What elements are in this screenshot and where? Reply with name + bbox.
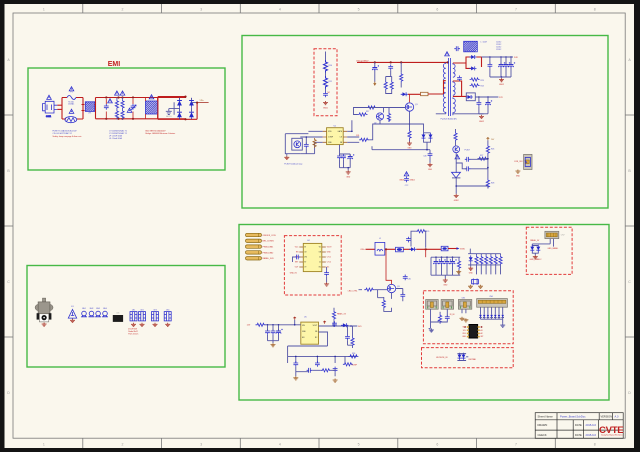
svg-text:LF1: LF1 (88, 113, 91, 115)
ferrite bead FB2 (441, 246, 448, 251)
ground rc left (293, 376, 298, 380)
ground C11 arrow (373, 82, 376, 86)
transformer T1 core (449, 58, 451, 116)
ground CP1 (131, 323, 136, 327)
wire snubber (408, 93, 444, 95)
wire U5 out (319, 308, 358, 326)
svg-text:2015-9-6: 2015-9-6 (586, 433, 597, 437)
svg-text:Power_Board.SchDoc: Power_Board.SchDoc (560, 414, 586, 418)
capacitor C40 (345, 335, 350, 341)
ground Y1 left (468, 285, 473, 289)
resistor R19 (387, 112, 390, 122)
EMI section box (28, 68, 225, 170)
ground out2 (479, 115, 484, 119)
ground rc right (333, 379, 338, 383)
capacitor C26 (465, 166, 471, 171)
capacitor C43 (333, 367, 338, 373)
wire CN7 down (532, 239, 553, 247)
U6 pin left 3 (467, 333, 469, 335)
earth symbol TRI1 (68, 309, 76, 318)
svg-text:VOUT: VOUT (327, 247, 332, 249)
warning triangle R2 (120, 91, 125, 95)
svg-text:SET: SET (295, 262, 298, 264)
svg-text:6: 6 (436, 443, 438, 447)
ground out1 (499, 78, 504, 82)
svg-text:MH1: MH1 (82, 308, 86, 310)
svg-text:PC817 feedback loop: PC817 feedback loop (284, 164, 302, 166)
wire secondary out1 (453, 57, 513, 68)
svg-text:LED_CTRL: LED_CTRL (348, 291, 358, 293)
ESD diode DA7 (501, 315, 504, 318)
svg-text:MH4: MH4 (103, 308, 107, 310)
svg-text:8: 8 (594, 8, 596, 12)
resistor RL3 (485, 255, 488, 265)
U4 right pin 5 (322, 266, 326, 268)
svg-text:GND: GND (428, 169, 433, 171)
wire CN3 down (429, 309, 439, 328)
label plate black (113, 315, 123, 322)
svg-text:DATE: DATE (575, 433, 582, 437)
tan ground r30 (456, 270, 461, 274)
svg-text:GND_5V: GND_5V (290, 272, 298, 274)
capacitor bank rail bottom (431, 257, 460, 278)
frame zone tick (82, 4, 84, 13)
resistor RL2 (480, 255, 483, 265)
svg-text:GND1: GND1 (323, 108, 328, 110)
svg-text:C2: C2 (319, 262, 321, 264)
capacitor C10 (323, 92, 328, 98)
svg-text:PC817: PC817 (465, 150, 471, 152)
TL431 U3 (452, 172, 461, 178)
resistor R15 startup (400, 73, 403, 83)
IC U6 black (469, 325, 478, 339)
svg-text:CVTE: CVTE (599, 425, 624, 436)
led row rail top (468, 253, 501, 255)
capacitor C14 (337, 154, 342, 160)
common-mode choke LF1 (85, 102, 94, 112)
svg-text:VOUT: VOUT (313, 325, 318, 327)
diode D2 (177, 110, 182, 119)
U6 pin right 1 (478, 326, 480, 328)
svg-text:GND2: GND2 (410, 180, 415, 182)
capacitor C15 (341, 154, 346, 160)
fuse F1 loop (62, 98, 83, 120)
diode D3 (189, 98, 194, 107)
wire AC N (57, 108, 62, 110)
control dashed box (284, 236, 341, 295)
svg-text:CTL1: CTL1 (327, 257, 331, 259)
capacitor C24 elco (486, 100, 493, 106)
svg-text:C1: C1 (319, 257, 321, 259)
U6 pin right 3 (478, 333, 480, 335)
resistor R26 (486, 145, 489, 155)
svg-text:R10: R10 (329, 65, 332, 67)
IC U5 regulator (301, 322, 319, 344)
resistor R32 q3 (382, 299, 385, 309)
led row rail bottom (468, 263, 501, 267)
transformer T1 primary (443, 62, 445, 114)
wire EMI top bus (82, 98, 187, 119)
ESD diode DA3 (487, 315, 490, 318)
wire U5 in (266, 323, 301, 326)
resistor R16 snubber (421, 92, 429, 95)
svg-text:Q3: Q3 (397, 286, 400, 288)
frame zone tick (239, 4, 241, 13)
TVS diode D16 (536, 245, 540, 252)
svg-text:MH3: MH3 (96, 308, 100, 310)
resistor R36 fb h (348, 355, 358, 358)
resistor R37 rc (321, 369, 331, 372)
ground cap bank (346, 170, 351, 174)
capacitor C38 elco (276, 329, 283, 335)
connector CN3 (426, 300, 439, 310)
resistor R1A (115, 99, 118, 109)
svg-text:EMI: EMI (108, 61, 121, 68)
connector pin P4 (246, 251, 262, 254)
wire CN4 down (438, 309, 447, 322)
svg-text:8: 8 (594, 443, 596, 447)
capacitor C22 (457, 76, 462, 82)
resistor R23 (470, 78, 480, 81)
svg-text:GND1: GND1 (399, 180, 404, 182)
optocoupler U2 output side (453, 146, 460, 153)
svg-text:KEYPAD: KEYPAD (469, 358, 477, 361)
svg-text:CON_24V: CON_24V (514, 161, 523, 163)
crystal Y1 (472, 280, 479, 284)
svg-text:ST: ST (304, 262, 306, 264)
wire fb divider (478, 140, 488, 188)
wire U1 right nets (347, 120, 359, 142)
svg-text:DRAWN: DRAWN (538, 423, 548, 427)
connector CN2 standalone (524, 154, 532, 169)
svg-text:R29: R29 (426, 231, 429, 233)
svg-text:Safety: keep creepage 6.4mm mi: Safety: keep creepage 6.4mm min (53, 135, 82, 138)
frame zone tick (554, 4, 556, 13)
wire diode row bottom (481, 319, 503, 323)
wire out2 gnd (479, 97, 488, 114)
IC U1 PWM controller (327, 128, 344, 145)
wire bridge columns (174, 98, 197, 119)
warning triangle CY2 (404, 172, 409, 176)
svg-text:CE3: CE3 (153, 309, 156, 311)
wire T1 bottom (436, 113, 484, 115)
ground opto (284, 156, 289, 160)
wire gate (359, 290, 392, 299)
svg-text:GND2: GND2 (454, 200, 459, 202)
svg-text:24V: 24V (514, 57, 518, 59)
U4 left pin 1 (299, 246, 303, 248)
capacitor C46 comp (428, 152, 433, 158)
svg-text:2015-9-6: 2015-9-6 (586, 423, 597, 427)
svg-text:CE1: CE1 (132, 309, 135, 311)
cap pad CP2 (139, 312, 146, 321)
ground cn5 a (460, 317, 465, 321)
ground cn5 b (463, 318, 468, 322)
capacitor CX1 (104, 104, 109, 110)
resistor R31 gate (364, 288, 374, 291)
cap pad CP1 (130, 312, 137, 321)
ferrite bead FB1 (396, 247, 404, 252)
svg-text:2: 2 (122, 8, 124, 12)
common-mode choke LF3 (464, 41, 478, 52)
ground CN2 (515, 170, 520, 174)
svg-text:PANEL_5V: PANEL_5V (337, 313, 347, 316)
connector pin P2 (246, 239, 262, 242)
svg-text:R26: R26 (491, 149, 494, 151)
connector pin P1 (246, 233, 262, 236)
ground Y1 right (478, 285, 483, 289)
svg-text:R24: R24 (481, 86, 484, 88)
ground led row (468, 267, 473, 271)
connector J1 AC inlet (43, 101, 58, 118)
frame zone tick (161, 4, 163, 13)
wire T1 snubber tap (444, 81, 446, 94)
U6 pin right 2 (478, 329, 480, 331)
svg-text:GND2: GND2 (479, 121, 484, 123)
transformer T1 secondary (453, 63, 455, 81)
svg-text:12V: 12V (499, 97, 503, 99)
ground earth (70, 319, 75, 323)
capacitor C32 elco (445, 259, 452, 265)
svg-text:CE: CE (304, 252, 306, 254)
svg-text:R23: R23 (481, 80, 484, 82)
svg-text:BRI_CON5V: BRI_CON5V (263, 241, 275, 243)
connector pin P3 (246, 245, 262, 248)
resistor RL4 (489, 255, 492, 265)
wire U5 in caps (268, 325, 279, 343)
svg-text:ON/OFF_CON: ON/OFF_CON (263, 235, 277, 237)
svg-text:CE2: CE2 (140, 309, 143, 311)
frame zone tick (476, 4, 478, 13)
wire Q3 drain (386, 249, 392, 284)
wire bridge loop (158, 97, 197, 120)
svg-text:SCL: SCL (463, 330, 466, 332)
U6 pin left 4 (467, 336, 469, 338)
svg-text:GND: GND (469, 272, 474, 274)
keypad dashed box (422, 348, 514, 368)
resistor R33 in (256, 323, 266, 326)
svg-text:C2012: C2012 (496, 49, 501, 51)
capacitor C27 u4 (295, 255, 301, 260)
ESD diode DA4 (490, 315, 493, 318)
warning triangle F1 (69, 87, 74, 91)
ESD diode DA6 (498, 315, 501, 318)
connector CN6 wide (477, 299, 508, 308)
resistor R1B (115, 109, 118, 119)
interface dashed box (423, 291, 513, 344)
wire U1 left nets (300, 131, 322, 153)
resistor R18 (358, 113, 368, 116)
wire CN6 pins down (481, 307, 503, 315)
resistor R27 h (478, 157, 488, 160)
svg-text:GND: GND (346, 177, 351, 179)
svg-text:CHECK: CHECK (538, 433, 547, 437)
svg-text:5: 5 (358, 8, 360, 12)
diode D11 (409, 247, 416, 251)
svg-text:Sheet Name: Sheet Name (538, 414, 554, 418)
resistor R35 (351, 337, 354, 347)
capacitor C44 rc (307, 368, 313, 373)
ESD diode DA1 (479, 315, 482, 318)
resistor R38 (343, 363, 353, 366)
resistor R2B (121, 109, 124, 119)
svg-text:L1: L1 (379, 238, 381, 240)
svg-text:R11: R11 (329, 81, 332, 83)
U6 pin left 1 (467, 326, 469, 328)
capacitor C29 d11 (406, 237, 411, 243)
mechanical parts section box (27, 266, 225, 368)
svg-text:VLED: VLED (460, 249, 466, 251)
panel dashed box (526, 227, 572, 274)
ground fb (454, 194, 459, 198)
U4 right pin 2 (322, 251, 326, 253)
warning triangle R1 (115, 91, 120, 95)
resistor RL5 (494, 255, 497, 265)
resistor RL1 (475, 255, 478, 265)
capacitor C45 if (445, 315, 450, 321)
U4 left pin 3 (299, 256, 303, 258)
screw hole MH2 (89, 311, 95, 317)
svg-text:R36: R36 (352, 353, 355, 355)
capacitor C16 big (348, 154, 355, 160)
capacitor C11 bulk (372, 65, 379, 71)
U4 left pin 5 (299, 266, 303, 268)
resistor R21 (359, 138, 369, 141)
capacitor C21 elco (509, 62, 516, 68)
frame zone tick side (5, 114, 14, 116)
svg-text:CS1: CS1 (356, 135, 360, 137)
fuse F1 (67, 96, 76, 100)
svg-text:GND2: GND2 (499, 84, 504, 86)
resistor R25 fb (454, 132, 457, 142)
resistor R30 bank (457, 260, 460, 270)
wire gate drive (354, 108, 406, 125)
screw hole MH4 (102, 311, 108, 317)
svg-text:7: 7 (515, 8, 517, 12)
svg-text:COMP: COMP (328, 137, 334, 139)
svg-text:LF: 20mH 0.8A: LF: 20mH 0.8A (109, 137, 122, 140)
svg-text:1: 1 (43, 8, 45, 12)
capacitor C25 (465, 157, 471, 162)
wire R29 loop (411, 231, 426, 248)
capacitor C34 q3 (400, 293, 405, 299)
capacitor C17 (454, 46, 460, 51)
ground CP4 (165, 323, 170, 327)
svg-text:C35: C35 (408, 279, 411, 281)
warning triangle CX1 (108, 99, 113, 103)
ESD diode DA2 (483, 315, 486, 318)
svg-text:OB+: OB+ (360, 249, 365, 251)
svg-text:GND_PANEL2: GND_PANEL2 (530, 258, 542, 261)
wire led row feed (469, 249, 471, 254)
capacitor C30 elco (434, 259, 441, 265)
svg-text:DATE: DATE (575, 423, 582, 427)
U4 right pin 3 (322, 256, 326, 258)
resistor R10 (324, 60, 328, 73)
secondary control section box (239, 225, 609, 401)
cap pad CP3 (152, 312, 159, 321)
ground CN6 (500, 324, 505, 328)
MOSFET Q1 (405, 103, 413, 111)
svg-text:OT: OT (304, 267, 306, 269)
diode D12 led (469, 255, 473, 262)
svg-text:C46: C46 (423, 155, 426, 157)
svg-text:3: 3 (200, 443, 202, 447)
screw hole MH1 (81, 311, 87, 317)
wire out1 gnd rail (490, 57, 511, 77)
ground cap bank (443, 279, 448, 283)
power arrow fb (487, 138, 490, 141)
transistor Q2 driver (376, 113, 383, 120)
wire secondary out2 (453, 81, 467, 96)
svg-text:Voltage380V: Voltage380V (356, 59, 369, 62)
ground CP2 (140, 323, 145, 327)
wire tvs (532, 246, 538, 256)
connector CN4 (441, 300, 454, 310)
ground tvs (533, 255, 538, 259)
diode D14 dual keypad (458, 353, 462, 360)
resistor RL6 (499, 255, 502, 265)
svg-text:CX:0.47uF/275VAC X2: CX:0.47uF/275VAC X2 (53, 132, 72, 135)
svg-text:250VAC: 250VAC (68, 103, 75, 106)
frame zone tick side (5, 225, 14, 227)
ground if navy (429, 328, 434, 332)
svg-text:6: 6 (436, 8, 438, 12)
svg-text:A1: A1 (481, 329, 483, 332)
inductor L1 (375, 242, 385, 255)
warning triangle RV1 (69, 109, 74, 113)
zener D7 (429, 133, 433, 140)
wire CS (410, 124, 424, 133)
capacitor CY1 (131, 104, 136, 110)
warning triangle CY1 (127, 108, 132, 112)
resistor R14 (390, 81, 393, 91)
capacitor C12 (388, 65, 393, 71)
svg-text:GND_PANEL: GND_PANEL (548, 247, 559, 250)
svg-text:7: 7 (515, 443, 517, 447)
wire tl431 (456, 159, 488, 194)
title block table (535, 413, 623, 439)
diode D5 clamp (401, 92, 408, 96)
wire rectified output (197, 102, 209, 104)
power flag U5 (293, 317, 296, 320)
frame zone tick (318, 4, 320, 13)
svg-text:PWM_DIM1: PWM_DIM1 (263, 247, 275, 249)
cap pad CP4 (164, 312, 171, 321)
ground CP3 (153, 323, 158, 327)
svg-text:PWM_DIM2: PWM_DIM2 (263, 252, 275, 254)
svg-text:CON1: CON1 (46, 116, 51, 118)
capacitor C19 elco (499, 62, 506, 68)
capacitor C31 elco (439, 259, 446, 265)
svg-text:CY2: CY2 (405, 185, 409, 187)
primary power section box (242, 36, 608, 209)
ground AC inlet (42, 323, 47, 327)
voltage sense dashed box (314, 49, 337, 116)
ground U5 caps (271, 343, 276, 347)
svg-text:COMP: COMP (352, 365, 358, 367)
ground sense (407, 142, 412, 146)
resistor R13 (384, 81, 387, 91)
wire CN5 down (462, 309, 466, 313)
wire FB2 out (448, 248, 457, 250)
svg-text:A2: A2 (481, 332, 483, 335)
svg-text:VERSION: VERSION (601, 414, 613, 418)
svg-text:4: 4 (279, 8, 281, 12)
resistor R17 (367, 106, 377, 109)
ground C46 (428, 163, 433, 167)
wire cap bank (340, 145, 351, 168)
